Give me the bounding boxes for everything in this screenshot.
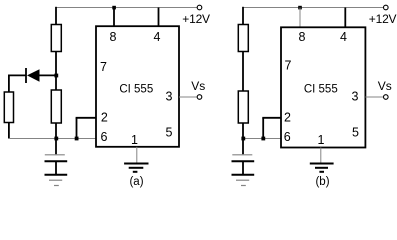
wire: cap bottom stem to ground (a) xyxy=(55,161,57,174)
svg-text:Vs: Vs xyxy=(378,79,392,93)
wire: pin 4 feed (a) xyxy=(158,8,160,27)
resistor R2 (b) xyxy=(238,91,248,123)
node: junction dot R2/cap (a) xyxy=(54,137,58,141)
resistor R3 (a) xyxy=(4,92,13,123)
wire: diode right lead (a) xyxy=(40,74,57,76)
wire: cap bottom stem to ground (b) xyxy=(242,161,244,174)
resistor R2 (a) xyxy=(51,90,61,123)
svg-text:5: 5 xyxy=(352,126,359,140)
wire: R1 to R2 (b) xyxy=(242,52,244,92)
svg-text:2: 2 xyxy=(101,110,108,124)
svg-text:+12V: +12V xyxy=(369,12,397,26)
wire: pin 1 ground stem (b) xyxy=(320,148,322,164)
diode D1 (a) triangle xyxy=(27,69,40,82)
wire: pin 6 bottom wire (a) xyxy=(9,138,96,140)
wire: R2 bottom to node (a) xyxy=(55,123,57,139)
wire: cap top stem (b) xyxy=(242,139,244,155)
capacitor C1 top plate (b) xyxy=(232,154,252,156)
node: junction dot pin2 branch (b) xyxy=(261,137,265,141)
terminal Vs (a) xyxy=(197,95,202,100)
svg-text:1: 1 xyxy=(131,133,138,147)
svg-text:2: 2 xyxy=(284,110,291,124)
svg-text:3: 3 xyxy=(166,90,173,104)
wire: R3 bottom to node wire (a) xyxy=(8,123,10,139)
wire: pin 3 output (b) xyxy=(365,96,383,98)
diode D1 (a) cathode bar xyxy=(25,68,27,83)
capacitor C1 bottom plate (a) xyxy=(45,160,68,162)
wire: pin 3 output (a) xyxy=(179,96,197,98)
terminal +12V (b) xyxy=(384,5,389,10)
ground under capacitor (a) xyxy=(45,175,68,186)
wire: pin 4 feed (b) xyxy=(344,8,346,28)
ground under IC (a) xyxy=(124,164,148,172)
terminal +12V (a) xyxy=(197,5,202,10)
resistor R1 (a) xyxy=(51,25,61,52)
wire: +12V top rail (a) xyxy=(56,7,197,9)
svg-text:(a): (a) xyxy=(129,176,143,188)
svg-text:4: 4 xyxy=(154,30,161,44)
wire: pin 6 bottom wire (b) xyxy=(243,138,281,140)
wire: pin 2 branch vertical (b) xyxy=(262,118,264,139)
wire: pin 2 branch vertical (a) xyxy=(76,118,78,139)
svg-text:CI 555: CI 555 xyxy=(119,83,153,95)
node: junction dot pin2 branch (a) xyxy=(75,137,79,141)
wire: pin 8 feed (a) xyxy=(113,8,115,27)
svg-text:7: 7 xyxy=(285,59,292,73)
node: junction dot R2/cap (b) xyxy=(241,137,245,141)
svg-text:+12V: +12V xyxy=(182,12,210,26)
resistor R1 (b) xyxy=(238,25,248,52)
svg-text:(b): (b) xyxy=(315,176,329,188)
svg-text:6: 6 xyxy=(284,130,291,144)
op-amp/IC U1 box CI 555 (a) xyxy=(96,26,179,147)
wire: R2 bottom to node (b) xyxy=(242,123,244,139)
svg-text:1: 1 xyxy=(318,133,325,147)
wire: R2 top from diode node (a) xyxy=(55,76,57,91)
wire: cap top stem (a) xyxy=(55,139,57,155)
wire: R1 bottom to diode node (a) xyxy=(55,52,57,76)
svg-text:7: 7 xyxy=(100,60,107,74)
wire: rail corner down to R1 (a) xyxy=(55,7,57,25)
wire: +12V top rail (b) xyxy=(243,7,384,9)
wire: pin 2 branch horizontal (a) xyxy=(76,117,96,119)
op-amp/IC U2 box CI 555 (b) xyxy=(281,27,365,147)
node: junction dot pin8 rail (a) xyxy=(112,6,116,10)
wire: left branch down to R3 (a) xyxy=(8,75,10,93)
wire: rail corner down to R1 (b) xyxy=(242,7,244,25)
svg-text:3: 3 xyxy=(352,90,359,104)
svg-text:4: 4 xyxy=(340,30,347,44)
capacitor C1 top plate (a) xyxy=(45,154,65,156)
ground under capacitor (b) xyxy=(232,175,255,186)
wire: pin 2 branch horizontal (b) xyxy=(262,117,281,119)
terminal Vs (b) xyxy=(384,95,389,100)
ground under IC (b) xyxy=(310,164,334,172)
svg-text:6: 6 xyxy=(101,130,108,144)
node: diode junction dot (a) xyxy=(54,74,58,78)
node: junction dot pin8 rail (b) xyxy=(298,6,302,10)
capacitor C1 bottom plate (b) xyxy=(232,160,255,162)
wire: pin 1 ground stem (a) xyxy=(136,147,138,163)
wire: pin 8 feed (b) xyxy=(299,8,301,28)
svg-text:Vs: Vs xyxy=(191,79,205,93)
svg-text:8: 8 xyxy=(110,30,117,44)
svg-text:5: 5 xyxy=(166,126,173,140)
wire: diode left lead (a) xyxy=(9,74,26,76)
svg-text:CI 555: CI 555 xyxy=(304,84,338,96)
svg-text:8: 8 xyxy=(299,30,306,44)
